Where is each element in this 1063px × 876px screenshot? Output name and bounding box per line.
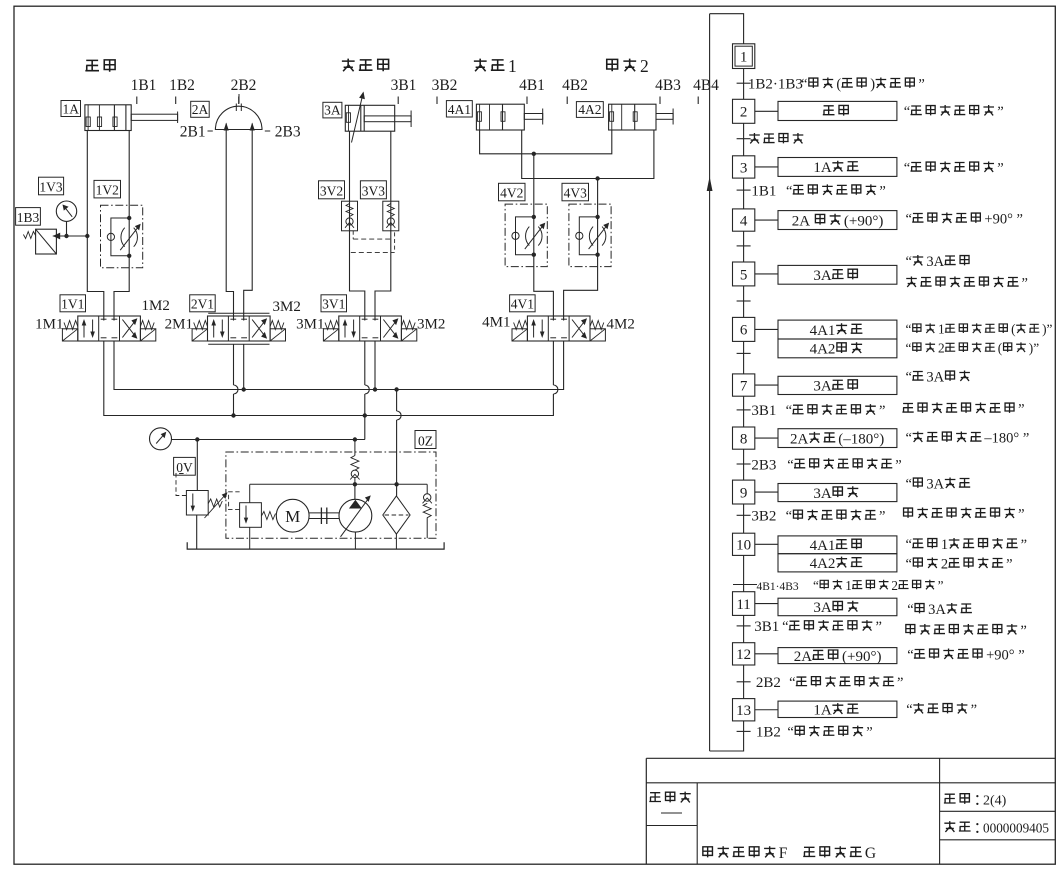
2V1 right solenoid 3M2 — [270, 329, 285, 341]
reference designator box 4A2 — [576, 102, 603, 118]
hop of 4V1 P line over tank bus — [553, 385, 558, 394]
svg-text:9: 9 — [740, 485, 748, 501]
svg-text:1B3: 1B3 — [17, 210, 40, 225]
cylinder 4A2 body — [609, 104, 656, 130]
svg-text:1V1: 1V1 — [61, 297, 84, 312]
svg-text:2B2: 2B2 — [231, 77, 257, 94]
wire filter to tank — [395, 534, 397, 549]
svg-text:1M2: 1M2 — [142, 298, 170, 314]
svg-text:1: 1 — [941, 537, 948, 553]
svg-text:1M1: 1M1 — [35, 317, 63, 333]
1V1 right return spring — [140, 321, 154, 330]
4V3 bypass loop — [579, 217, 597, 255]
cylinder 4A1 piston — [502, 104, 504, 130]
action box step 13: 1A## — [778, 701, 897, 717]
svg-text:): ) — [870, 77, 875, 93]
svg-text:1A: 1A — [813, 160, 832, 176]
wire P bus to pump line — [355, 416, 365, 440]
svg-text:1: 1 — [938, 322, 945, 337]
svg-text:”: ” — [1018, 507, 1024, 523]
1V1 right cell crossed arrows — [122, 320, 136, 338]
svg-text:4V1: 4V1 — [511, 297, 534, 312]
gauge 1V3 stem — [66, 221, 68, 236]
cylinder 4A2 piston — [634, 104, 636, 130]
wire 4A1 right port to 4A2 right port — [522, 130, 654, 179]
svg-text:4B1·4B3: 4B1·4B3 — [757, 581, 799, 593]
4V2 variable throttle — [526, 227, 530, 246]
transition tick at y=681.8 — [737, 681, 751, 683]
svg-text:(: ( — [998, 341, 1002, 356]
svg-text:“: “ — [906, 341, 912, 356]
3V1 centre cell blocked ports — [362, 318, 368, 320]
svg-text:4B4: 4B4 — [693, 77, 719, 94]
2V1 mounting rails — [208, 312, 269, 314]
cylinder 3A piston — [360, 105, 362, 131]
svg-text:3A: 3A — [928, 602, 946, 618]
svg-text:“: “ — [907, 648, 913, 664]
1V1 right solenoid 1M2 — [140, 329, 155, 341]
flow control valve 4V2 enclosure — [505, 204, 547, 267]
svg-text:6: 6 — [740, 323, 748, 339]
step box 12 — [733, 643, 755, 665]
cylinder 4A1 rod — [524, 114, 542, 120]
transition tick at y=464.0 — [737, 463, 751, 465]
svg-text:2B3: 2B3 — [751, 457, 776, 473]
connector step 6 to action — [755, 328, 778, 330]
transition tick at y=83.2 — [737, 82, 751, 84]
step box 4 — [733, 209, 755, 231]
4V1 centre cell blocked ports — [550, 318, 556, 320]
svg-text:(+90°): (+90°) — [842, 649, 881, 665]
2B2 stem ticks on dome — [238, 94, 240, 104]
svg-text:“: “ — [787, 725, 793, 741]
svg-text:4M2: 4M2 — [607, 317, 635, 333]
svg-text:2B2: 2B2 — [756, 675, 781, 691]
svg-text:“: “ — [801, 77, 807, 93]
svg-text:”: ” — [866, 725, 872, 741]
svg-text:3M2: 3M2 — [273, 299, 301, 315]
node relief valve 0V tap — [195, 437, 199, 441]
4V1 left return spring — [514, 321, 528, 330]
step box 13 — [733, 699, 755, 721]
2V1 right return spring — [270, 321, 284, 330]
directional valve 4V1 body — [527, 316, 590, 341]
return filter — [383, 496, 410, 534]
wire 2A right to 2V1 port B — [244, 124, 253, 321]
svg-text:4V3: 4V3 — [564, 186, 587, 201]
rail direction arrow — [707, 177, 713, 192]
svg-text:3A: 3A — [813, 379, 832, 395]
svg-text:2A: 2A — [790, 431, 809, 447]
svg-text:”: ” — [997, 161, 1003, 177]
svg-text:”: ” — [971, 702, 977, 718]
svg-text:2: 2 — [740, 105, 748, 121]
2V1 right cell crossed arrows — [252, 320, 266, 338]
svg-text:“: “ — [786, 403, 792, 419]
reference designator box 1V1 — [60, 295, 86, 312]
svg-text:+90° ”: +90° ” — [986, 648, 1025, 664]
wire 0V1 to pilot line — [249, 484, 251, 502]
svg-text:G: G — [865, 845, 876, 862]
action box step 6: 4A2## — [778, 339, 897, 358]
svg-text:0V: 0V — [176, 460, 193, 475]
svg-text:4A1: 4A1 — [810, 323, 836, 339]
node 3V1 P on bus — [363, 413, 367, 417]
svg-text:”: ” — [1006, 557, 1012, 573]
svg-text:“: “ — [906, 322, 912, 337]
svg-text:(: ( — [836, 77, 841, 93]
3V2 spring — [346, 204, 353, 217]
wire 0V to tank — [196, 515, 198, 549]
cylinder 1A body — [85, 105, 131, 131]
svg-text:”: ” — [897, 675, 903, 691]
reference designator box 4V1 — [510, 295, 535, 312]
reference designator box 4A1 — [446, 101, 472, 117]
svg-text:4A1: 4A1 — [448, 102, 471, 117]
rail top link — [710, 14, 744, 44]
pressure switch 1B3 body — [36, 229, 57, 254]
svg-text:“: “ — [906, 557, 912, 573]
reference designator box 1A — [61, 101, 81, 117]
svg-text:3M1: 3M1 — [296, 317, 324, 333]
svg-text:2A: 2A — [192, 102, 209, 117]
svg-text:3B1: 3B1 — [754, 619, 779, 635]
svg-text:2(4): 2(4) — [983, 794, 1007, 809]
pressure gauge 1V3 — [56, 201, 76, 221]
step box 7 — [733, 374, 755, 396]
svg-text:2A: 2A — [792, 213, 811, 229]
4V1 right return spring — [590, 321, 604, 330]
1V1 left return spring — [64, 321, 78, 330]
svg-text:1B1: 1B1 — [751, 183, 776, 199]
1V1 centre cell blocked ports — [101, 318, 107, 320]
svg-text:”: ” — [895, 457, 901, 473]
svg-text:”: ” — [918, 77, 924, 93]
svg-text:3A: 3A — [813, 268, 832, 284]
2V1 left cell arrows — [213, 322, 215, 338]
3V1 right return spring — [401, 321, 415, 330]
wire 0V1 to tank — [249, 527, 251, 549]
svg-text:“: “ — [906, 431, 912, 447]
svg-text:3A: 3A — [926, 477, 944, 493]
tank bus line T — [114, 341, 564, 390]
transition tick at y=301.0 — [737, 300, 751, 302]
svg-text:4A1: 4A1 — [810, 538, 836, 554]
svg-text:“: “ — [789, 675, 795, 691]
svg-text:)”: )” — [1042, 322, 1052, 337]
reference designator box 4V2 — [499, 183, 526, 201]
svg-text:3A: 3A — [813, 600, 832, 616]
electric motor M — [276, 499, 309, 532]
4V1 right solenoid 4M2 — [590, 329, 605, 341]
svg-text:3B2: 3B2 — [432, 77, 458, 94]
svg-text:2: 2 — [938, 341, 945, 356]
reference designator box 1V3 — [39, 177, 64, 195]
cylinder 3A stroke-limit arrow — [352, 97, 363, 143]
reference designator box 2V1 — [190, 295, 216, 312]
svg-text:1: 1 — [845, 578, 852, 593]
svg-text:“: “ — [907, 602, 913, 618]
svg-text:13: 13 — [736, 703, 751, 719]
title 液压回路图F 制造设备G — [703, 847, 713, 858]
svg-text:(: ( — [1011, 322, 1015, 337]
transition condition text — [749, 133, 760, 143]
wire 1A left port to 1V1 port A — [87, 131, 104, 321]
reference designator box 3V2 — [319, 181, 345, 199]
svg-text:”: ” — [876, 619, 882, 635]
pressure switch 1B3 spring — [23, 232, 35, 239]
connector step 12 to action — [755, 653, 778, 655]
action box step 6: 4A1## — [778, 320, 897, 339]
flow control valve 1V2 enclosure — [101, 205, 143, 268]
reference designator box 2A — [191, 101, 210, 117]
svg-text:(+90°): (+90°) — [844, 213, 883, 229]
svg-text:2A: 2A — [794, 649, 813, 665]
svg-text:1B1: 1B1 — [131, 77, 157, 94]
svg-text:1V2: 1V2 — [96, 183, 119, 198]
internal relief valve 0V1 — [240, 503, 262, 528]
1V2 check valve — [107, 233, 114, 240]
reference designator box 0V — [174, 457, 196, 475]
2V1 left solenoid 2M1 — [192, 329, 207, 341]
action box step 2: ## — [778, 101, 897, 120]
svg-text:4B3: 4B3 — [655, 77, 681, 94]
wire 3A right through 3V3 to 3V1 port B — [375, 131, 391, 320]
step box 3 — [733, 156, 755, 178]
reference designator box 3V1 — [321, 295, 347, 312]
wire 2V1 P port to bus — [233, 344, 235, 415]
piston — [113, 105, 115, 131]
chart spine — [743, 69, 745, 100]
node pump outlet — [353, 437, 357, 441]
svg-text:“: “ — [906, 537, 912, 553]
svg-text:1: 1 — [740, 49, 748, 65]
title 比例尺 (scale) — [649, 793, 661, 802]
svg-text:3B1: 3B1 — [391, 77, 417, 94]
svg-text:1A: 1A — [813, 703, 832, 719]
svg-text:–180° ”: –180° ” — [983, 431, 1029, 447]
step box 10 — [733, 533, 755, 555]
svg-text:(–180°): (–180°) — [838, 431, 884, 447]
check valve 3V3 body — [383, 201, 399, 231]
4V3 variable throttle — [589, 227, 593, 246]
title 序号 serial no — [944, 821, 955, 832]
wire pump to tank — [354, 532, 356, 549]
connector step 8 to action — [755, 437, 778, 439]
svg-text:12: 12 — [736, 647, 751, 663]
svg-text:2: 2 — [891, 578, 898, 593]
svg-text:M: M — [285, 507, 300, 526]
svg-text:”: ” — [879, 403, 885, 419]
svg-text:“: “ — [906, 254, 912, 270]
svg-text:11: 11 — [736, 597, 750, 613]
node filter top — [394, 482, 398, 486]
2V1 left return spring — [194, 321, 208, 330]
cylinder 4A2 rod — [656, 114, 673, 120]
1V2 bypass loop — [111, 218, 129, 256]
node on 1A left line — [85, 234, 89, 238]
svg-text:3A: 3A — [813, 486, 832, 502]
svg-text:0000009405: 0000009405 — [983, 821, 1049, 836]
svg-text:4V2: 4V2 — [500, 186, 523, 201]
3V1 left cell arrows — [344, 322, 346, 338]
svg-text:3M2: 3M2 — [417, 317, 445, 333]
cylinder 1A piston rod — [131, 114, 177, 120]
connector step 10 to action — [755, 543, 778, 545]
action box step 11: 3A## — [778, 598, 897, 616]
directional valve 1V1 body — [78, 316, 141, 341]
reference designator box 1V2 — [94, 180, 121, 198]
svg-text:2B1: 2B1 — [180, 124, 206, 141]
svg-text:“: “ — [904, 104, 910, 120]
transition tick at y=625.9 — [737, 625, 751, 627]
svg-text:2V1: 2V1 — [191, 297, 214, 312]
node on gripper line B — [595, 176, 599, 180]
action box step 10: 4A2## — [778, 554, 897, 572]
3V1 right solenoid 3M2 — [401, 329, 416, 341]
3V1 left return spring — [325, 321, 339, 330]
svg-text:“: “ — [906, 477, 912, 493]
connector step 11 to action — [755, 603, 778, 605]
3V2 ball — [346, 218, 353, 225]
svg-text:“: “ — [787, 457, 793, 473]
4V3 check valve — [576, 232, 583, 239]
svg-text:3V2: 3V2 — [320, 184, 343, 199]
node 2V1 P on bus — [231, 413, 235, 417]
check valve 3V2 body — [342, 201, 358, 231]
node 3V1 T on bus — [373, 387, 377, 391]
reference designator box 1B3 — [16, 208, 41, 226]
svg-text:“: “ — [786, 183, 792, 199]
label 抓手1 (gripper1) — [474, 59, 487, 72]
action box step 4: 2A ##(+90°) — [778, 211, 897, 230]
svg-text:3A: 3A — [324, 103, 341, 118]
svg-text:3: 3 — [740, 160, 748, 176]
wire 4A1 left port to 4A2 left port — [480, 130, 612, 154]
transition tick at y=245.9 — [737, 245, 751, 247]
step box 1 — [733, 44, 755, 69]
title 页次 page no — [944, 794, 956, 803]
flow control valve 4V3 enclosure — [569, 204, 611, 267]
svg-text:4A2: 4A2 — [578, 102, 601, 117]
bypass check valve — [426, 484, 428, 493]
svg-text:4: 4 — [740, 213, 748, 229]
action box step 10: 4A1## — [778, 536, 897, 554]
label 套筒 (sleeve) — [85, 60, 99, 70]
cylinder 3A body — [345, 105, 394, 131]
step box 2 — [733, 99, 755, 123]
svg-text:2: 2 — [941, 557, 948, 573]
svg-text:4B1: 4B1 — [519, 77, 545, 94]
step box 9 — [733, 480, 755, 504]
1V2 variable throttle — [121, 228, 125, 247]
svg-text:“: “ — [906, 212, 912, 228]
connector step 4 to action — [755, 219, 778, 221]
tank — [187, 542, 444, 549]
wire 1B3 to node, with arrow — [53, 235, 88, 237]
svg-text:3A: 3A — [926, 370, 944, 386]
svg-text:“: “ — [786, 509, 792, 525]
wire 3V1 T port to bus — [374, 341, 376, 390]
svg-text:3B1: 3B1 — [751, 403, 776, 419]
3V1 right cell crossed arrows — [383, 320, 397, 338]
svg-text:4A2: 4A2 — [810, 556, 836, 572]
connector step 7 to action — [755, 384, 778, 386]
step box 11 — [733, 592, 755, 616]
3V1 left solenoid 3M1 — [323, 329, 338, 341]
4V1 right cell crossed arrows — [572, 320, 586, 338]
svg-text:”: ” — [1021, 537, 1027, 553]
svg-text:F: F — [779, 845, 788, 862]
3V3 spring — [387, 204, 394, 217]
wire 3V1 P port to bus — [364, 341, 366, 416]
svg-text:4M1: 4M1 — [482, 315, 510, 331]
svg-text:+90° ”: +90° ” — [984, 212, 1023, 228]
svg-text:0Z: 0Z — [418, 433, 433, 448]
4V2 check valve — [512, 232, 519, 239]
svg-text:4B2: 4B2 — [562, 77, 588, 94]
connector step 9 to action — [755, 491, 778, 493]
rail bottom link — [710, 721, 744, 751]
svg-text:2B3: 2B3 — [275, 124, 301, 141]
svg-text:5: 5 — [740, 267, 748, 283]
reference designator box 0Z — [415, 431, 436, 449]
3V3 ball — [387, 218, 394, 225]
reference designator box 3V3 — [360, 181, 386, 199]
svg-text:”: ” — [1018, 402, 1024, 418]
svg-text:“: “ — [906, 702, 912, 718]
directional valve 2V1 body — [208, 316, 271, 341]
step box 8 — [733, 427, 755, 449]
2A internal arrows — [224, 123, 229, 131]
cylinder 3A rod — [364, 116, 411, 122]
svg-text:1: 1 — [508, 56, 517, 76]
sequence chart return rail — [709, 14, 711, 751]
variable displacement pump — [339, 499, 372, 532]
rotary actuator 2A dome — [215, 106, 262, 129]
connector step 3 to action — [755, 166, 778, 168]
1V1 left cell arrows — [83, 322, 85, 338]
label 抓手2 (gripper2) — [607, 59, 618, 71]
wire pump top to pump — [354, 484, 356, 499]
step box 5 — [733, 262, 755, 286]
gauge supply line — [172, 439, 365, 441]
node pump top junction — [353, 482, 357, 486]
wire 2A left to 2V1 port A — [226, 124, 233, 321]
4V2 bypass loop — [516, 217, 534, 255]
node tank return on T bus — [394, 387, 398, 391]
svg-text:3A: 3A — [926, 254, 944, 270]
transition tick at y=138.7 — [737, 138, 751, 140]
cylinder 4A1 body — [476, 104, 524, 130]
svg-text:1B2: 1B2 — [169, 77, 195, 94]
title block frame — [646, 757, 1055, 759]
connector step 5 to action — [755, 273, 778, 275]
svg-text:”: ” — [879, 183, 885, 199]
action box step 9: 3A## — [778, 484, 897, 502]
wire 3A left through 3V2 to 3V1 port A — [350, 131, 365, 320]
svg-text:“: “ — [906, 370, 912, 386]
1V1 left solenoid 1M1 — [62, 329, 77, 341]
directional valve 3V1 body — [339, 316, 402, 341]
connector step 2 to action — [755, 110, 778, 112]
transition tick at y=190.1 — [737, 189, 751, 191]
svg-text:3V1: 3V1 — [322, 297, 345, 312]
svg-text:”: ” — [1020, 623, 1026, 639]
transition tick at y=515.3 — [737, 514, 751, 516]
svg-text:1A: 1A — [63, 101, 80, 116]
node 2V1 T on bus — [242, 387, 246, 391]
